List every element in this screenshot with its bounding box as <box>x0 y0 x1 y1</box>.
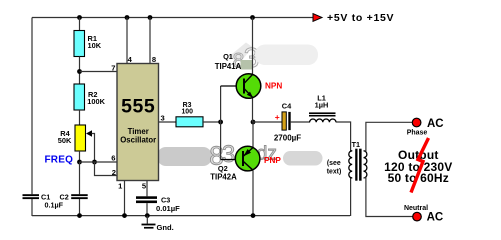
svg-text:Neutral: Neutral <box>404 205 428 212</box>
node: R4 bottom / pin6 junction <box>77 160 82 165</box>
wire: pin 6 <box>80 161 118 163</box>
IC U1 555 timer <box>117 64 159 181</box>
svg-text:2: 2 <box>112 168 116 177</box>
transistor Q2 TIP42A PNP <box>235 146 260 171</box>
wire: C4 to L1 <box>291 121 310 123</box>
svg-text:Oscillator: Oscillator <box>120 136 156 145</box>
node: C3 / bottom rail <box>145 213 150 218</box>
wire: pin 5 to C3 <box>146 181 148 197</box>
wire: C3 to rail <box>146 203 148 216</box>
wire: node to Q2 emitter <box>252 122 254 147</box>
wire: secondary top to AC Phase <box>364 122 413 151</box>
node: top rail / R1 junction <box>77 15 82 20</box>
svg-text:3: 3 <box>161 113 165 122</box>
wire: ground bottom rail <box>32 215 350 217</box>
watermark wedge near Q1 <box>229 43 253 62</box>
svg-text:2700µF: 2700µF <box>274 133 301 142</box>
node: C2 / bottom rail <box>77 213 82 218</box>
svg-text:555: 555 <box>121 96 155 118</box>
svg-text:text): text) <box>327 169 342 176</box>
watermark capsule B (middle left) <box>157 147 212 166</box>
wire: Q1 collector <box>252 18 254 75</box>
arrow: +V supply arrowhead <box>313 14 322 22</box>
wire: pin 7 <box>80 71 118 73</box>
wire: +V top rail <box>32 17 313 19</box>
svg-text:T1: T1 <box>352 140 360 149</box>
node: top rail / pin4 junction <box>125 15 130 20</box>
svg-text:(see: (see <box>327 160 341 167</box>
ground <box>146 216 148 224</box>
capacitor C4 electrolytic <box>282 112 286 130</box>
svg-text:7: 7 <box>111 64 115 73</box>
node: R1/R2/pin7 junction <box>77 69 82 74</box>
wire: R4 bottom to node <box>79 151 81 162</box>
wire: pin 3 stub <box>159 121 177 123</box>
capacitor C2 <box>71 194 88 196</box>
svg-text:TIP41A: TIP41A <box>215 62 242 71</box>
svg-text:Q1: Q1 <box>223 52 233 61</box>
svg-text:6: 6 <box>111 154 115 163</box>
wire: L1 to transformer primary <box>336 122 352 151</box>
svg-text:PNP: PNP <box>264 156 281 165</box>
wire: Q2 base lead <box>221 159 243 161</box>
svg-text:100K: 100K <box>87 97 105 106</box>
wire: C2 bottom to rail <box>79 199 81 216</box>
T1 secondary winding <box>364 151 367 178</box>
T1 core <box>355 149 357 181</box>
inductor L1 <box>309 112 336 114</box>
watermark capsule A (top) <box>255 45 318 66</box>
pot wiper arrow <box>86 130 92 136</box>
svg-text:+5V to +15V: +5V to +15V <box>327 12 394 24</box>
transistor Q1 TIP41A NPN <box>236 74 261 99</box>
wire: node down to C2 <box>79 162 81 194</box>
svg-text:0.01µF: 0.01µF <box>156 204 180 213</box>
wire: secondary bottom to AC Neutral <box>364 178 413 217</box>
node: Q2 collector / bottom rail <box>251 213 256 218</box>
wire: pin 1 <box>124 181 126 217</box>
wire: Q1 emitter down <box>252 98 254 122</box>
svg-text:50K: 50K <box>58 136 72 145</box>
T1 primary winding <box>349 151 352 178</box>
svg-text:1µH: 1µH <box>315 100 329 109</box>
svg-text:Gnd.: Gnd. <box>157 223 174 232</box>
node: top rail / pin8 junction <box>148 15 153 20</box>
wire: pin 4 <box>126 18 128 64</box>
wire: R1 bottom to node <box>79 57 81 85</box>
svg-text:AC: AC <box>427 212 444 224</box>
svg-text:Phase: Phase <box>407 129 428 136</box>
node: emitter junction <box>251 120 256 125</box>
svg-text:FREQ: FREQ <box>45 154 74 165</box>
svg-text:TIP42A: TIP42A <box>210 172 237 181</box>
node: base bus junction <box>218 120 223 125</box>
resistor R1 <box>74 31 85 57</box>
svg-text:+: + <box>275 112 280 122</box>
wire: pin 8 <box>149 18 151 64</box>
watermark capsule C (middle right) <box>283 151 323 166</box>
lightning bolt <box>411 138 429 193</box>
svg-text:0.1µF: 0.1µF <box>45 201 64 210</box>
wire: base bus vertical <box>220 86 222 160</box>
node: pin1 / bottom rail <box>122 213 127 218</box>
svg-text:NPN: NPN <box>265 82 282 91</box>
svg-text:C4: C4 <box>282 102 292 111</box>
wire: pin 2 <box>95 162 118 176</box>
wire: rail to R1 top <box>79 18 81 31</box>
wire: Q1 base lead <box>221 85 244 87</box>
capacitor C1 <box>23 194 40 196</box>
svg-text:10K: 10K <box>88 41 102 50</box>
resistor R4 (pot) <box>75 125 86 151</box>
wire: left vertical below C1 <box>31 199 33 216</box>
node: top rail / Q1 collector junction <box>250 15 255 20</box>
resistor R2 <box>74 84 85 110</box>
svg-text:8: 8 <box>152 55 156 64</box>
node: wiper / pin6 junction <box>92 160 97 165</box>
svg-text:100: 100 <box>181 109 193 116</box>
watermark sage square <box>241 60 253 70</box>
resistor R3 <box>176 117 203 127</box>
capacitor C3 <box>136 196 157 199</box>
wire: R3 to bases node <box>203 121 221 123</box>
wire: Q2 collector to rail <box>252 171 254 217</box>
wire: node to C4 <box>253 121 282 123</box>
wire: R2 bottom to R4 top <box>79 110 81 125</box>
terminal: AC Phase dot <box>412 118 421 127</box>
wire: primary bottom to rail <box>351 178 353 216</box>
terminal: AC Neutral dot <box>413 212 422 221</box>
wire: left vertical rail <box>31 18 33 195</box>
svg-text:AC: AC <box>427 118 444 130</box>
